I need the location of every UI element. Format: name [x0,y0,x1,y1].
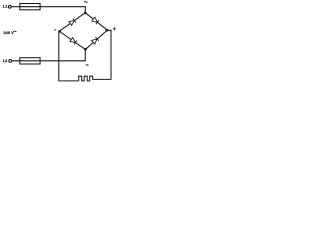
svg-text:L1: L1 [3,4,8,9]
svg-text:L2: L2 [3,58,8,63]
svg-text:240 V: 240 V [4,30,15,35]
